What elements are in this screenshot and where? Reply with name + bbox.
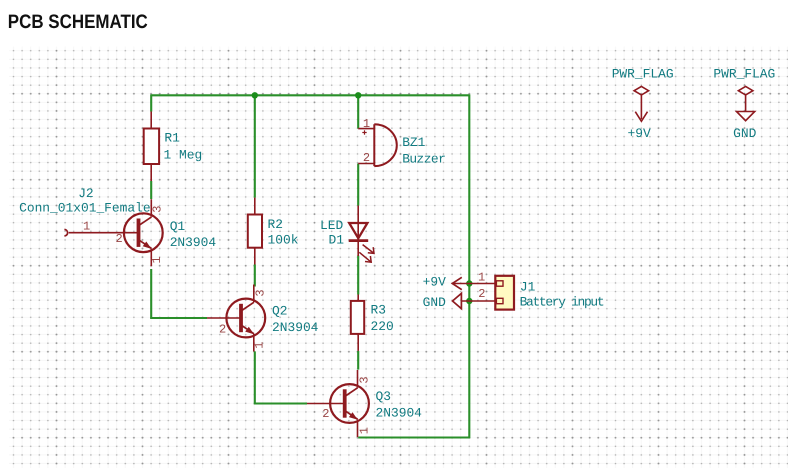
- svg-text:2N3904: 2N3904: [272, 320, 319, 335]
- svg-text:D1: D1: [329, 233, 345, 248]
- svg-text:1: 1: [150, 256, 164, 263]
- svg-text:Battery input: Battery input: [520, 294, 604, 309]
- svg-text:J1: J1: [520, 280, 536, 295]
- svg-text:J2: J2: [78, 186, 93, 201]
- svg-text:2: 2: [219, 322, 226, 336]
- svg-text:R3: R3: [371, 303, 386, 318]
- svg-text:Q2: Q2: [272, 304, 287, 319]
- svg-text:PWR_FLAG: PWR_FLAG: [713, 67, 775, 82]
- svg-text:Q3: Q3: [376, 389, 391, 404]
- svg-text:BZ1: BZ1: [402, 135, 425, 150]
- svg-text:+9V: +9V: [628, 126, 651, 141]
- svg-text:2: 2: [363, 151, 370, 165]
- svg-text:2: 2: [322, 407, 329, 421]
- svg-text:R1: R1: [164, 131, 180, 146]
- svg-text:1: 1: [253, 342, 267, 349]
- svg-text:2: 2: [116, 232, 123, 246]
- svg-text:100k: 100k: [268, 233, 299, 248]
- svg-text:3: 3: [358, 376, 372, 383]
- svg-text:Q1: Q1: [170, 219, 186, 234]
- svg-text:PWR_FLAG: PWR_FLAG: [612, 67, 674, 82]
- svg-text:1: 1: [363, 117, 370, 131]
- svg-text:1: 1: [358, 427, 372, 434]
- svg-text:2N3904: 2N3904: [170, 235, 217, 250]
- svg-text:Conn_01x01_Female: Conn_01x01_Female: [19, 201, 151, 216]
- svg-text:1: 1: [478, 271, 485, 285]
- svg-text:GND: GND: [423, 295, 446, 310]
- svg-text:3: 3: [253, 289, 267, 296]
- svg-text:+9V: +9V: [423, 275, 446, 290]
- svg-text:PCB SCHEMATIC: PCB SCHEMATIC: [8, 11, 148, 33]
- svg-text:1: 1: [83, 220, 90, 234]
- svg-text:R2: R2: [268, 217, 283, 232]
- svg-text:1 Meg: 1 Meg: [164, 148, 203, 163]
- svg-text:3: 3: [151, 206, 165, 213]
- svg-text:GND: GND: [733, 126, 756, 141]
- svg-text:2N3904: 2N3904: [376, 406, 423, 421]
- svg-text:220: 220: [371, 319, 394, 334]
- svg-text:LED: LED: [320, 218, 343, 233]
- svg-text:2: 2: [478, 287, 485, 301]
- svg-text:Buzzer: Buzzer: [402, 151, 445, 166]
